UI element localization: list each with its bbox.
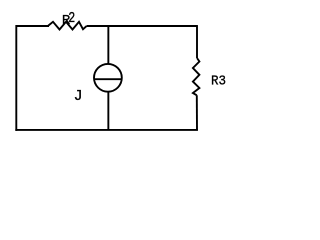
wire: right side upper xyxy=(196,25,198,58)
current source J circle xyxy=(94,64,122,92)
wire: top from R2 to top-right corner xyxy=(87,25,197,27)
svg-text:J: J xyxy=(74,88,83,105)
wire: right side lower xyxy=(196,95,198,130)
current source J bar xyxy=(94,78,122,80)
wire: top from left corner to R2 xyxy=(16,25,49,27)
svg-text:R3: R3 xyxy=(211,73,226,89)
resistor R2 xyxy=(48,22,87,30)
wire: left side xyxy=(15,25,17,131)
wire: bottom xyxy=(15,129,198,131)
svg-text:2: 2 xyxy=(68,11,75,27)
wire: middle vertical upper (node to current source) xyxy=(107,26,109,64)
wire: middle vertical lower (current source to bottom) xyxy=(107,92,109,130)
resistor R3 xyxy=(193,58,200,95)
